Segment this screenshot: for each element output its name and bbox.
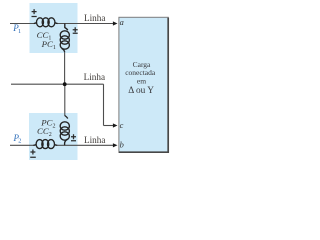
svg-text:Linha: Linha: [84, 72, 105, 82]
svg-text:b: b: [120, 141, 124, 150]
svg-text:a: a: [120, 18, 124, 27]
svg-text:Linha: Linha: [84, 13, 105, 23]
svg-text:Linha: Linha: [84, 135, 105, 145]
svg-text:em: em: [137, 77, 146, 86]
svg-text:Δ ou Y: Δ ou Y: [128, 86, 154, 96]
svg-text:c: c: [120, 121, 124, 130]
